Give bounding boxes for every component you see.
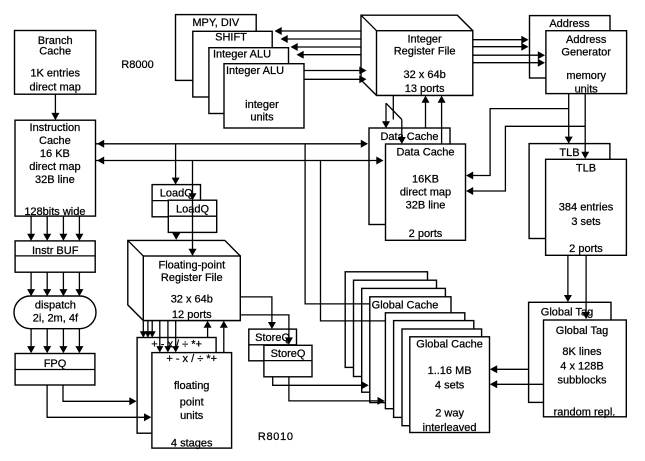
svg-text:4 x 128B: 4 x 128B [560, 360, 603, 372]
block Address Generator (front) [546, 31, 627, 94]
svg-text:Register File: Register File [394, 46, 456, 58]
wire branch down into LoadQ queue [189, 161, 197, 201]
svg-text:subblocks: subblocks [558, 375, 607, 387]
wire branch down to LoadQ (back) [172, 144, 180, 185]
svg-text:point: point [180, 396, 204, 408]
svg-text:units: units [575, 83, 599, 95]
svg-text:Data Cache: Data Cache [396, 147, 454, 159]
svg-text:Floating-point: Floating-point [158, 259, 225, 271]
wire Address Generator down to TLB (front) [581, 94, 589, 159]
wire Instruction Cache bus line 1 to Data Cache (back) [96, 140, 369, 148]
block TLB (front) [546, 159, 627, 255]
label Instruction Cache text [24, 122, 85, 218]
wire Address Generator down to TLB (back) [565, 94, 573, 144]
wire FPRF to StoreQ (back) [240, 297, 276, 329]
svg-text:StoreQ: StoreQ [255, 332, 290, 344]
label Address Generator text [561, 34, 611, 95]
svg-text:12 ports: 12 ports [172, 309, 212, 321]
label Global Cache (front) text [416, 339, 483, 434]
svg-text:16KB: 16KB [412, 173, 439, 185]
svg-text:Global Cache: Global Cache [372, 300, 439, 312]
svg-text:floating: floating [174, 380, 209, 392]
svg-text:8K lines: 8K lines [562, 346, 602, 358]
wire FPRF down to FPU back (3 lines) [140, 321, 156, 338]
svg-text:StoreQ: StoreQ [271, 348, 306, 360]
block Instr BUF [15, 241, 95, 272]
block integer unit Integer ALU (back) [209, 48, 289, 114]
svg-text:Register File: Register File [161, 272, 223, 284]
svg-text:LoadQ: LoadQ [160, 188, 193, 200]
wire integer units to IRF (line 2) [304, 75, 367, 83]
svg-text:TLB: TLB [576, 162, 596, 174]
svg-text:Data Cache: Data Cache [380, 131, 438, 143]
svg-text:Cache: Cache [39, 135, 71, 147]
block Global Cache layer 5 [385, 313, 464, 409]
label Integer Register File text [394, 33, 456, 95]
block Global Cache layer 4 (labelled) [370, 297, 451, 403]
block Global Cache layer 6 [394, 321, 474, 418]
wire dispatch to FPQ (4 lines) [27, 329, 83, 354]
svg-text:SHIFT: SHIFT [215, 32, 247, 44]
svg-text:Address: Address [566, 34, 607, 46]
block Global Tag (front) [544, 320, 627, 417]
svg-text:4 stages: 4 stages [171, 438, 213, 450]
wire IRF to Integer ALU (line 4) [297, 51, 362, 59]
block floating point unit (back) [137, 338, 216, 434]
svg-text:Instruction: Instruction [30, 122, 81, 134]
svg-text:384 entries: 384 entries [559, 201, 614, 213]
wire IRF to integer units (line 2) [281, 35, 362, 43]
wire FPU back up to FPRF [204, 321, 212, 338]
svg-text:Integer: Integer [407, 33, 442, 45]
svg-text:Instr BUF: Instr BUF [32, 245, 79, 257]
label TLB (front) text [559, 162, 614, 255]
wire Global Tag (front) to Global Cache (line 2) [490, 380, 544, 388]
block Data Cache (front) [386, 144, 466, 240]
svg-text:units: units [180, 410, 204, 422]
svg-text:2 ports: 2 ports [569, 243, 603, 255]
svg-text:Global Cache: Global Cache [416, 339, 483, 351]
block Branch Cache [15, 31, 96, 95]
svg-text:direct map: direct map [29, 161, 80, 173]
wire LoadQ to FPRF (back top) [172, 232, 180, 240]
svg-text:direct map: direct map [400, 187, 451, 199]
svg-text:R8000: R8000 [121, 59, 153, 71]
svg-text:2 ports: 2 ports [409, 228, 443, 240]
wire Branch Cache to Instruction Cache [51, 94, 59, 120]
wire StoreQ to Global Cache layer 5 [289, 377, 385, 405]
svg-text:Generator: Generator [561, 46, 611, 58]
svg-text:3 sets: 3 sets [571, 216, 601, 228]
block dispatch (stadium) [14, 296, 96, 329]
svg-text:Global Tag: Global Tag [556, 325, 608, 337]
svg-text:R8010: R8010 [258, 431, 294, 443]
block Integer Register File (3D box) [361, 15, 473, 95]
wire address bus to Data Cache right side (line 2) [466, 126, 585, 195]
wire FPRF down to FPU front (3 lines) [156, 321, 179, 353]
wire IRF to Address box (line 2) [473, 43, 529, 51]
svg-text:interleaved: interleaved [423, 422, 477, 434]
wire TLB to Global Tag (back) [564, 255, 572, 302]
svg-text:FPQ: FPQ [44, 358, 67, 370]
svg-text:memory: memory [566, 70, 606, 82]
wire IRF down with bypass fork to Data Cache [382, 95, 406, 144]
block Instruction Cache [15, 120, 96, 216]
label floating point units text [171, 380, 213, 450]
block floating point unit (front) [152, 353, 232, 449]
svg-text:TLB: TLB [559, 147, 579, 159]
wire Data Cache (front) up to IRF [438, 96, 446, 144]
wire LoadQ through to FPRF (front top) [189, 201, 197, 256]
wire Instruction Cache to Instr BUF (4 lines) [27, 216, 83, 241]
svg-text:32B line: 32B line [406, 200, 446, 212]
block Global Cache layer 8 (front) [410, 337, 490, 433]
svg-text:16 KB: 16 KB [40, 148, 70, 160]
svg-text:Integer ALU: Integer ALU [213, 48, 271, 60]
block integer unit SHIFT [193, 31, 272, 97]
svg-text:1..16 MB: 1..16 MB [428, 365, 472, 377]
block Global Cache layer 3 [362, 288, 446, 392]
wire IRF to SHIFT unit (line 1) [275, 27, 362, 35]
wire branch down to Global Cache layer 5 [321, 161, 386, 321]
label Floating-point Register File text [158, 259, 225, 321]
block integer unit MPY,DIV [176, 15, 257, 81]
block Floating-point Register File (3D box) [128, 240, 241, 320]
svg-text:dispatch: dispatch [35, 300, 76, 312]
label dispatch text [33, 300, 79, 325]
block Global Tag (back) [529, 302, 611, 402]
svg-text:Cache: Cache [39, 45, 71, 57]
svg-text:integer: integer [245, 99, 279, 111]
wire IRF to integer units (line 3) [291, 43, 362, 51]
svg-text:random repl.: random repl. [554, 406, 616, 418]
wire IRF to Address box (line 1) [473, 36, 529, 44]
wire FPQ to floating point unit (front) [47, 385, 151, 421]
svg-text:4 sets: 4 sets [435, 379, 465, 391]
wire FPQ to floating point unit (back) [63, 385, 137, 405]
block TLB (back) [529, 144, 610, 239]
wire FPRF to StoreQ (front) [240, 315, 293, 345]
block Global Cache layer 2 [354, 280, 437, 376]
label Data Cache (front) text [396, 147, 454, 240]
svg-text:units: units [250, 112, 274, 124]
wire IRF to Address Generator (line 4) [473, 59, 545, 67]
block FPQ [15, 354, 95, 386]
block integer unit Integer ALU (front) [224, 64, 304, 128]
wire Global Tag (back) to Global Cache (line 1) [490, 365, 529, 373]
wire Instr BUF to dispatch (4 lines) [27, 272, 83, 296]
wire branch down to Global Cache layer 4 [305, 144, 369, 304]
svg-text:2i, 2m, 4f: 2i, 2m, 4f [33, 313, 79, 325]
svg-text:128bits wide: 128bits wide [24, 206, 85, 218]
svg-text:32B line: 32B line [35, 174, 75, 186]
block Global Cache layer 7 [402, 329, 482, 426]
wire TLB to Global Tag (front) [582, 255, 590, 319]
svg-text:Integer ALU: Integer ALU [226, 65, 284, 77]
wire StoreQ to Global Cache layer 4 [273, 377, 369, 390]
block StoreQ (front) [264, 345, 312, 377]
svg-text:+ - x / ÷ *+: + - x / ÷ *+ [166, 353, 217, 365]
svg-text:1K entries: 1K entries [30, 68, 80, 80]
svg-text:32 x 64b: 32 x 64b [171, 294, 213, 306]
wire Instruction Cache bus line 2 to Data Cache (front) [96, 157, 384, 165]
label Global Tag (front) text [554, 325, 616, 418]
block LoadQ (front) [168, 200, 216, 232]
wire integer units to IRF (line 1) [304, 67, 367, 75]
svg-text:32 x 64b: 32 x 64b [403, 69, 445, 81]
svg-text:MPY, DIV: MPY, DIV [192, 17, 240, 29]
svg-text:direct map: direct map [30, 82, 81, 94]
label Branch Cache text [30, 35, 81, 94]
block Address (back) [530, 16, 611, 78]
block Global Cache layer 1 [345, 272, 427, 368]
block LoadQ (back) [152, 185, 200, 217]
svg-text:Address: Address [549, 18, 590, 30]
svg-text:13 ports: 13 ports [405, 83, 445, 95]
wire FPU front up to FPRF [220, 321, 228, 353]
wire Data Cache (back) up to IRF [422, 96, 430, 128]
label integer units [245, 99, 279, 124]
svg-text:2 way: 2 way [435, 408, 464, 420]
wire IRF to Address Generator (line 3) [473, 51, 545, 59]
block Data Cache (back) [369, 128, 450, 225]
block StoreQ (back) [249, 329, 297, 361]
wire address bus to Data Cache right side (line 1) [466, 109, 569, 180]
